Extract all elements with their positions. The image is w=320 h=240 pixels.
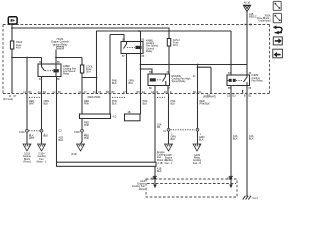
svg-text:(Front): (Front) [23, 160, 31, 163]
power tag (battery positive distribution) [8, 17, 17, 24]
svg-text:RED/C: RED/C [249, 15, 257, 18]
node: fuse block name label [257, 14, 271, 22]
wire: branch to ground G103 [26, 58, 28, 94]
svg-text:BLK: BLK [157, 170, 162, 173]
node: ignition relay feed reference G12-3 [51, 38, 82, 64]
wire: relay K3 output to motor M1 right end [155, 94, 167, 174]
ground G103 [23, 144, 31, 163]
toolbar icon: arrow right [273, 37, 282, 45]
fuse F3 (FAN 2 40A) [167, 31, 180, 74]
node: connector pin labels on fuse block boundary [3, 91, 252, 101]
wire: ground path 2 [29, 94, 49, 145]
svg-text:(RED 2WD): (RED 2WD) [88, 96, 101, 99]
toolbar icon: swap arrows [274, 27, 283, 32]
svg-text:BLK: BLK [171, 103, 176, 106]
svg-text:X119: X119 [19, 131, 25, 134]
svg-text:G1 4: G1 4 [253, 197, 259, 200]
svg-text:(F12): (F12) [71, 153, 77, 156]
svg-text:BLK: BLK [59, 139, 64, 142]
svg-text:BLK: BLK [171, 138, 176, 141]
fuse F1 (TRLR 40A) [10, 28, 22, 58]
svg-text:4B: 4B [157, 126, 160, 129]
svg-text:40 16: 40 16 [244, 2, 251, 5]
svg-text:4 Ω: 4 Ω [113, 115, 117, 118]
wire: relay feed rail y64.5 [140, 64, 247, 74]
wire: bus tap to resistor R1 [110, 35, 124, 115]
svg-text:PNK: PNK [84, 124, 89, 127]
svg-text:Relay: Relay [146, 50, 153, 53]
wire: ground path 1 with connector X119 [19, 94, 35, 145]
svg-text:Underhood: Underhood [258, 20, 271, 23]
fuse F2 (COOL 30A) [80, 31, 96, 94]
toolbar icon: zoom boxes [273, 1, 281, 22]
svg-text:WHT: WHT [29, 103, 35, 106]
svg-text:30 A: 30 A [86, 71, 91, 74]
svg-text:40 A: 40 A [16, 46, 21, 49]
wire: ground path G108 with inline connector [163, 94, 176, 165]
wire: relay K1 output to motor M1 [57, 94, 64, 163]
wire: relay K2 coil to suppressor box [140, 54, 142, 115]
svg-text:4 1B: 4 1B [158, 162, 163, 165]
svg-text:PNK: PNK [84, 103, 89, 106]
svg-text:BLK: BLK [129, 82, 134, 85]
wire: rail branches to connector pins [198, 65, 212, 94]
svg-text:BLK: BLK [249, 138, 254, 141]
svg-text:BLK: BLK [112, 103, 117, 106]
node: motor connector and arrow (right) [227, 94, 233, 189]
wire: resistor R1 to ground with connector X118 [71, 119, 89, 157]
wire: ground path G109 with inline connector [171, 94, 211, 165]
toolbar icon: arrow left [273, 49, 283, 58]
fuse block X50A dashed boundary [3, 25, 270, 94]
svg-text:Relay: Relay [63, 73, 70, 76]
svg-text:BLK: BLK [44, 103, 49, 106]
svg-text:Speed Relay: Speed Relay [172, 80, 187, 83]
relay K4 (cooling fan) [227, 72, 263, 94]
svg-text:Fan - L: Fan - L [165, 162, 173, 165]
svg-text:Fan - R: Fan - R [193, 162, 201, 165]
svg-text:Motor - L: Motor - L [37, 160, 47, 163]
svg-text:Fan Relay: Fan Relay [252, 79, 264, 82]
svg-text:(Frt Gnd): (Frt Gnd) [3, 98, 13, 101]
svg-text:BLK: BLK [44, 135, 49, 138]
node: motor connector and arrow (left) [151, 166, 157, 188]
relay K1 (cooling fan low speed) [11, 57, 97, 94]
svg-text:BLK: BLK [233, 138, 238, 141]
wire: fuse F1 output [12, 57, 42, 59]
svg-text:4C: 4C [248, 24, 251, 27]
svg-text:PNK: PNK [84, 137, 89, 140]
ground G104 [37, 144, 47, 163]
svg-text:40 A: 40 A [173, 44, 178, 47]
motor M1 (cooling fan motor bar) [57, 162, 157, 166]
cooling fan motor component dashed box [132, 179, 237, 197]
svg-text:BLK: BLK [143, 103, 148, 106]
wire: relay K4 outputs down [233, 94, 254, 197]
svg-text:PNK/BLK: PNK/BLK [200, 103, 211, 106]
ground G1 (chassis) [243, 194, 259, 200]
wire: bus corner to relay K4 [230, 31, 232, 75]
wire: battery feed bus [11, 25, 231, 32]
resistor R1 (cooling fan resistor) [80, 78, 118, 119]
battery positive feed B+ [243, 2, 257, 75]
relay K3 (cooling fan high speed) [148, 71, 191, 94]
svg-text:BLK: BLK [199, 139, 204, 142]
svg-text:WHT: WHT [29, 137, 35, 140]
svg-text:BLK: BLK [112, 82, 117, 85]
svg-text:Motor: Motor [139, 188, 145, 191]
relay K2 (cooling fan speed control) [121, 31, 159, 94]
svg-text:1B: 1B [128, 111, 131, 114]
svg-text:X118: X118 [74, 131, 80, 134]
